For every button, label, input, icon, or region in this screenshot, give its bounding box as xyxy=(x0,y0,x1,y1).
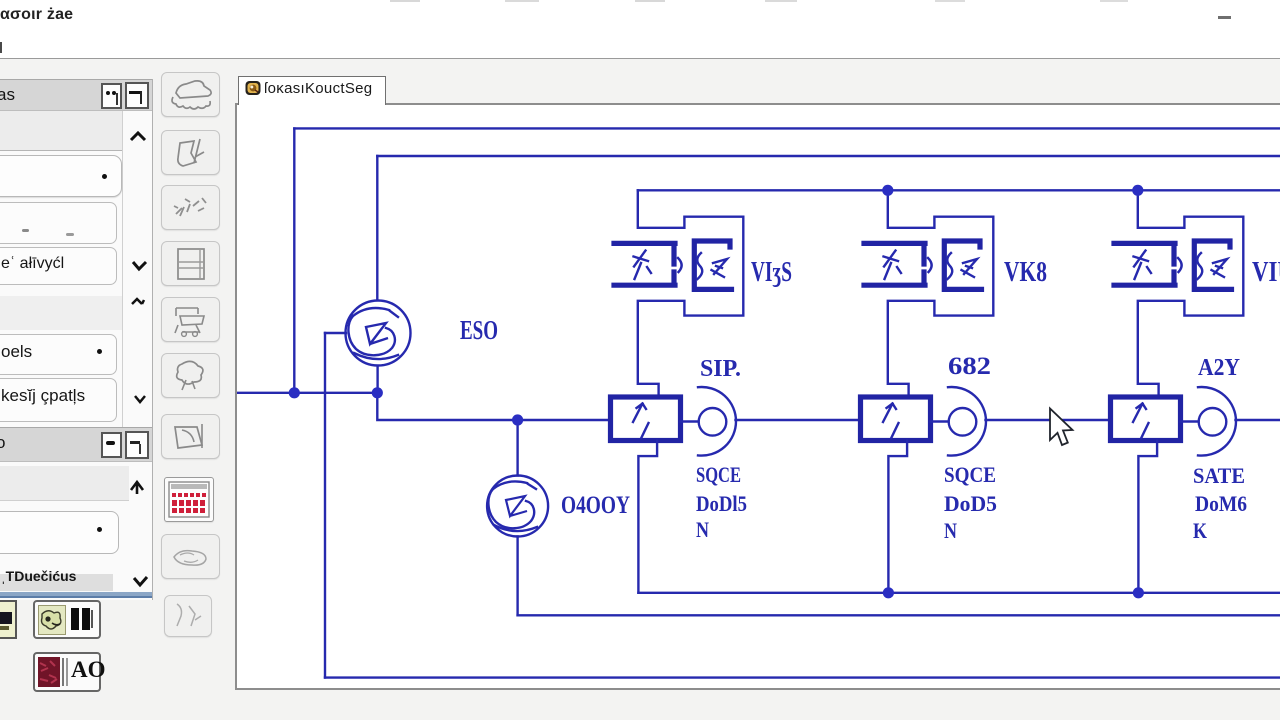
wire: emitter bus xyxy=(638,592,1280,594)
svg-text:K: K xyxy=(1193,518,1207,543)
minimize dash xyxy=(1218,16,1231,19)
wire: top horizontal line 1 xyxy=(294,127,1280,129)
wire: V2 top lead xyxy=(516,420,518,476)
section gap block xyxy=(0,296,122,330)
svg-text:A2Y: A2Y xyxy=(1198,355,1240,381)
wire: left return vertical xyxy=(324,333,326,678)
wire: gate bus line 3 xyxy=(638,189,1280,191)
source V2 (O4OOY) xyxy=(487,476,548,537)
panel 1 header xyxy=(0,79,152,111)
node: emitter bus 2 xyxy=(883,587,894,598)
row F xyxy=(0,511,119,554)
converter cell 3 xyxy=(1111,190,1280,593)
gutter arrows panel1 xyxy=(126,126,150,416)
schematic svg xyxy=(237,105,1280,688)
mouse cursor xyxy=(1050,409,1073,446)
row E xyxy=(0,378,117,422)
svg-text:N: N xyxy=(696,517,709,542)
document tab xyxy=(238,76,386,105)
row B xyxy=(0,202,117,244)
header button 1 xyxy=(101,83,122,109)
p2 header button 1 xyxy=(101,432,122,458)
small mark left edge xyxy=(0,42,2,53)
svg-text:O4OOY: O4OOY xyxy=(561,492,630,519)
wire: V2 return line xyxy=(518,614,1280,616)
wire: V2 bottom lead xyxy=(516,537,518,616)
wire: left outer vertical xyxy=(293,128,295,392)
svg-text:DoM6: DoM6 xyxy=(1195,491,1247,516)
panel2 gutter arrows xyxy=(126,476,150,596)
wire: source V1 top lead xyxy=(376,156,378,300)
panel2 gray block xyxy=(0,466,129,501)
svg-text:682: 682 xyxy=(948,353,991,380)
panel1 top band xyxy=(0,111,122,151)
button with icons xyxy=(33,600,101,639)
p2 header button 2 xyxy=(125,431,149,459)
row A xyxy=(0,155,122,197)
wire: V1 bottom lead xyxy=(376,366,378,393)
gutter separator xyxy=(122,111,123,430)
svg-text:VK8: VK8 xyxy=(1004,256,1047,288)
svg-text:ESO: ESO xyxy=(460,315,498,345)
svg-text:SQCE: SQCE xyxy=(696,462,741,487)
canvas white area xyxy=(235,103,1280,690)
row D xyxy=(0,334,117,375)
menu bar text xyxy=(0,6,73,24)
cut button at left edge xyxy=(0,600,17,639)
node: emitter bus 3 xyxy=(1133,587,1144,598)
highlighted row xyxy=(0,574,113,591)
wire: bottom return line xyxy=(325,676,1280,678)
panel 2 header xyxy=(0,427,152,462)
wire: top horizontal line 2 xyxy=(377,155,1280,157)
svg-text:DoDl5: DoDl5 xyxy=(696,491,747,516)
row C xyxy=(0,247,117,285)
wire: left bus xyxy=(236,392,377,394)
node: gate bus 3 xyxy=(1132,185,1143,196)
faint top edge dashes xyxy=(390,0,420,2)
svg-text:N: N xyxy=(944,518,957,543)
AO button xyxy=(33,652,101,692)
node: bus V1 xyxy=(372,387,383,398)
node: bus left xyxy=(289,387,300,398)
svg-text:VIU: VIU xyxy=(1252,256,1280,288)
source V1 (ESO) xyxy=(346,301,411,366)
svg-text:DoD5: DoD5 xyxy=(944,491,997,516)
svg-text:SQCE: SQCE xyxy=(944,462,996,487)
panel 1 body bg xyxy=(0,79,153,600)
svg-text:SIP.: SIP. xyxy=(700,356,741,382)
converter cell 1 xyxy=(611,190,860,593)
menu divider xyxy=(0,58,1280,59)
svg-text:SATE: SATE xyxy=(1193,463,1245,488)
wire: bus jog to switch row xyxy=(377,393,610,420)
node: gate bus 2 xyxy=(882,185,893,196)
panel2 bottom blue edge xyxy=(0,592,152,596)
wire: V1 left lead xyxy=(325,332,346,334)
converter cell 2 xyxy=(861,190,1110,593)
header button 2 xyxy=(125,82,149,109)
node: V2 tap xyxy=(512,414,523,425)
svg-text:VIʒS: VIʒS xyxy=(751,256,792,288)
